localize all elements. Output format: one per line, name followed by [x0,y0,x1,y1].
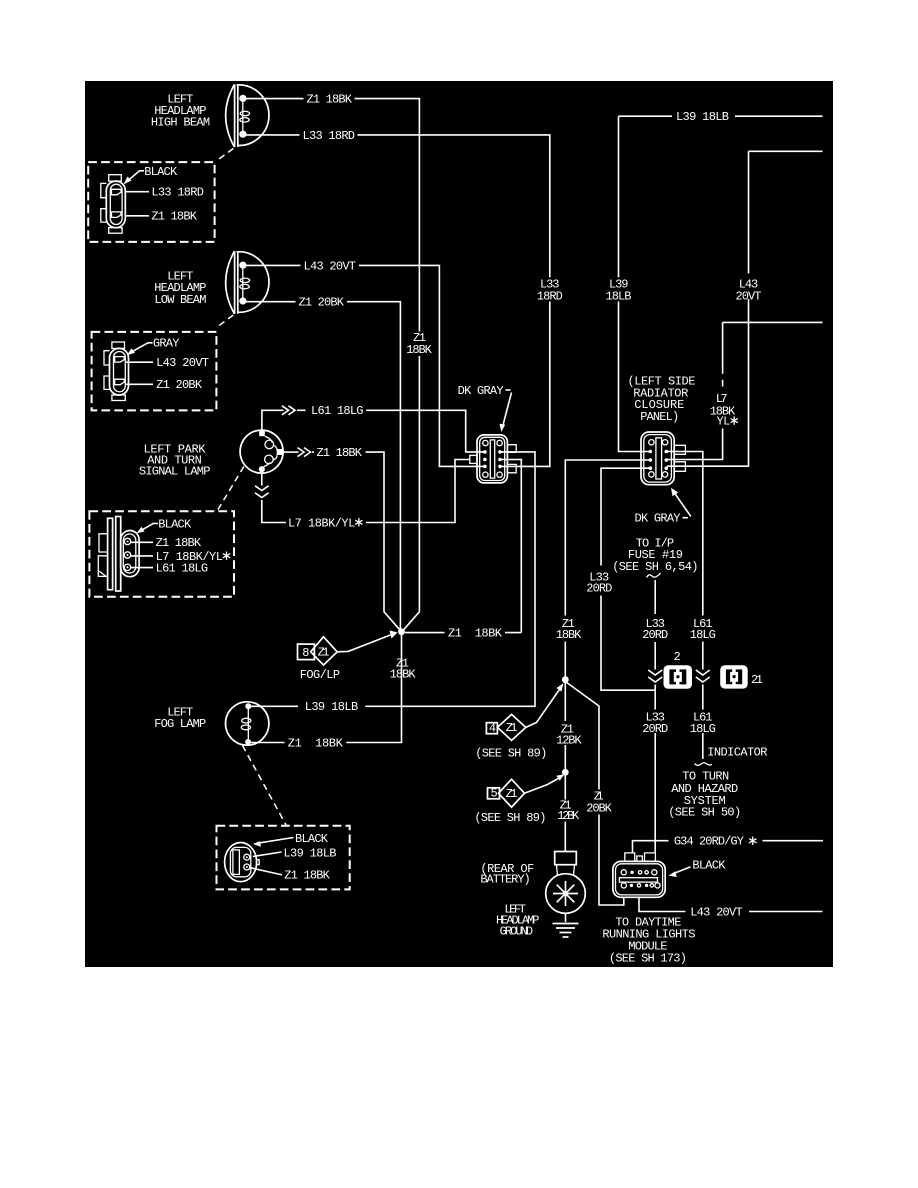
label LEFT HEADLAMP GROUND [496,902,540,938]
dashed leader fog lamp to box [243,746,287,826]
wire L39 18LB vertical run to U2 row2 left [618,116,620,277]
svg-text:21: 21 [751,673,763,687]
splice symbol 4 Z1 (SEE SH 89) with arrow to node B [475,683,563,760]
svg-text:4: 4 [489,722,496,736]
svg-text:L39 18LB: L39 18LB [676,110,729,124]
ground symbol [553,913,579,937]
wire L61 18LG from park/turn top to connector U1 row2 left [262,404,484,452]
svg-text:SIGNAL LAMP: SIGNAL LAMP [139,464,211,478]
svg-text:BATTERY): BATTERY) [480,873,530,887]
black diagram panel [85,81,833,967]
svg-text:18RD: 18RD [537,289,563,303]
svg-text:L43 20VT: L43 20VT [156,356,209,370]
connector box C2 (low beam, GRAY) dashed box [92,332,217,411]
svg-text:12BK: 12BK [557,809,580,823]
svg-text:FOG/LP: FOG/LP [300,668,340,682]
label TO I/P FUSE #19 (SEE SH 6,54) [612,536,698,577]
wire L43 20VT from DRL module bottom [639,897,823,919]
svg-text:8: 8 [302,646,309,660]
wire Z1 18BK vertical lower part into node A [404,356,420,630]
lamp: left headlamp high beam [226,84,269,147]
connector box C3 (park/turn, BLACK) dashed box [89,511,234,596]
svg-text:Z1 18BK: Z1 18BK [288,736,344,750]
connector C2 face symbol [104,342,129,401]
svg-text:(SEE SH 173): (SEE SH 173) [609,951,687,965]
label BLACK (C4) with arrow [253,832,329,847]
svg-text:YL: YL [717,415,731,429]
wire L33 18RD from high beam [246,129,550,277]
splice symbol 8 Z1 FOG/LP [298,637,338,665]
label L7 18BK/YL* (C3 pin) [131,550,230,564]
svg-text:Z1: Z1 [318,646,330,660]
lamp: left headlamp low beam [226,251,269,314]
svg-text:BLACK: BLACK [144,165,178,179]
svg-text:Z1 18BK: Z1 18BK [156,536,202,550]
label L61 18LG (C3 pin) [131,562,208,576]
wire label Z1 18BK (node A lower run) [390,657,417,682]
wire Z1 18BK from park/turn right terminal [283,446,400,630]
node A junction dot [398,628,405,635]
svg-text:Z1: Z1 [506,787,518,801]
label DK GRAY (U1) with arrow [458,384,512,432]
svg-text:BLACK: BLACK [158,517,192,531]
wire Z1 18BK horizontal from node A to U1 branch [405,627,521,641]
wire L61 18LG from U2 row2 right down to turn/hazard [667,452,716,766]
svg-text:(SEE SH 50): (SEE SH 50) [668,806,741,820]
label TO TURN AND HAZARD SYSTEM (SEE SH 50) [668,770,741,820]
label Z1 18BK (C3 pin) [131,536,202,550]
label TO DAYTIME RUNNING LIGHTS MODULE (SEE SH 173) [602,915,695,965]
svg-text:Z1 18BK: Z1 18BK [448,627,503,641]
svg-text:5: 5 [491,787,498,801]
svg-text:BLACK: BLACK [295,832,329,846]
wire Z1 18BK from fog lamp to node A vertical [251,634,402,750]
svg-text:L7 18BK/YL: L7 18BK/YL [288,516,355,530]
svg-text:18BK: 18BK [390,668,417,682]
wire L33 20RD branch from U2 row4 left [586,468,655,690]
wire label L33 18RD (vertical) [537,277,563,303]
label Z1 20BK (C2 pin) [126,378,203,392]
svg-text:L33 18RD: L33 18RD [151,186,204,200]
wire Z1 20BK branch from node B to DRL module [565,682,624,906]
splice symbol 2 [664,650,693,689]
label BLACK (DRL module) with arrow [668,859,726,877]
node B junction dot [562,676,569,683]
svg-text:Z1 18BK: Z1 18BK [151,210,197,224]
svg-text:G34 20RD/GY: G34 20RD/GY [674,835,744,849]
svg-text:L39 18LB: L39 18LB [305,700,359,714]
svg-text:INDICATOR: INDICATOR [707,745,767,759]
svg-text:18BK: 18BK [406,343,432,357]
svg-text:12BK: 12BK [556,734,582,748]
wire Z1 12BK node B to node C [556,683,582,769]
label: LEFT PARK AND TURN SIGNAL LAMP [139,442,211,478]
label Z1 18BK (C4 pin) [251,868,331,883]
svg-text:Z1 18BK: Z1 18BK [284,869,330,883]
wire G34 20RD/GY* from DRL module [633,835,824,853]
wire Z1 12BK node C to ground bulb [557,776,580,852]
wire L39 18LB from fog lamp to connector U1 row2 right [251,452,535,714]
label L33 18RD (C1 pin) [125,186,204,200]
svg-text:BLACK: BLACK [692,859,726,873]
wire label Z1 18BK (vertical run) [406,331,432,357]
svg-text:LOW BEAM: LOW BEAM [154,293,206,307]
svg-text:L39 18LB: L39 18LB [284,847,337,861]
connector C1 face symbol [101,175,126,234]
wire Z1 18BK from U2 row3 left down to node B [556,460,650,677]
svg-text:(SEE SH 6,54): (SEE SH 6,54) [612,560,698,574]
svg-text:20BK: 20BK [586,802,612,816]
svg-text:Z1: Z1 [506,721,518,735]
label DK GRAY (U2) with arrow [635,488,691,526]
svg-text:Z1 20BK: Z1 20BK [156,378,203,392]
label Z1 18BK (C1 pin) [125,210,197,224]
label BLACK (C1) with arrow [124,165,178,185]
arrow from FOG/LP splice to node A [337,631,397,652]
svg-text:L43 20VT: L43 20VT [690,905,743,919]
svg-text:FOG LAMP: FOG LAMP [154,717,206,731]
svg-text:GRAY: GRAY [153,337,180,351]
svg-text:L61 18LG: L61 18LG [156,562,209,576]
connector box C1 (high beam, BLACK) dashed box [88,162,214,242]
label (LEFT SIDE RADIATOR CLOSURE PANEL) [628,375,696,424]
wire Z1 18BK U1 row3 right down to node A branch [501,460,522,633]
svg-text:(SEE SH 89): (SEE SH 89) [474,811,546,825]
label (REAR OF BATTERY) [480,862,534,887]
label L39 18LB (C4 pin) [253,847,337,861]
wire L39 18LB top right horizontal [619,110,823,124]
svg-text:GROUND: GROUND [500,924,533,938]
svg-text:18LG: 18LG [690,628,716,642]
connector C4 face symbol [225,843,260,882]
svg-text:18LB: 18LB [606,289,632,303]
splice symbol 5 Z1 (SEE SH 89) with arrow to node C [474,774,564,825]
svg-text:HIGH BEAM: HIGH BEAM [151,116,210,130]
wire L43 20VT from low beam to connector U1 row4 left [246,259,484,466]
wire Z1 18BK from high beam to vertical run [246,93,419,332]
svg-text:Z1 18BK: Z1 18BK [307,93,353,107]
wire L7 18BK/YL* from park/turn bottom terminal [255,460,470,531]
inline connector U2 (left side radiator closure panel) [641,432,685,485]
label: LEFT HEADLAMP HIGH BEAM [151,93,210,130]
wire Z1 20BK from low beam down to node A [246,296,400,630]
wire L7 18BK/YL* right horizontal and vertical to U2 row3 right [667,322,823,459]
svg-text:18BK: 18BK [556,628,582,642]
svg-text:DK GRAY: DK GRAY [635,512,681,526]
svg-text:(SEE SH 89): (SEE SH 89) [475,746,547,760]
svg-text:PANEL): PANEL) [640,410,679,424]
label: LEFT HEADLAMP LOW BEAM [154,269,206,307]
svg-text:Z1 20BK: Z1 20BK [299,296,345,310]
svg-text:2: 2 [674,650,681,664]
lamp: left fog lamp [226,702,269,745]
label L43 20VT (C2 pin) [126,356,209,370]
ground bulb symbol (left headlamp ground) [546,852,586,914]
svg-text:20RD: 20RD [642,628,668,642]
lamp: left park and turn signal lamp [240,430,283,473]
svg-text:L61 18LG: L61 18LG [311,404,364,418]
node C junction dot [562,769,569,776]
svg-text:L33 18RD: L33 18RD [303,129,356,143]
inline connector U1 (DK GRAY) [470,435,516,483]
svg-text:Z1 18BK: Z1 18BK [317,446,363,460]
svg-text:DK GRAY: DK GRAY [458,384,504,398]
DRL module connector (BLACK) [613,853,665,897]
label BLACK (C3) with arrow [137,517,192,533]
dashed leader park/turn to box [218,466,244,510]
label GRAY (C2) with arrow [127,337,180,356]
svg-text:L43 20VT: L43 20VT [304,259,357,273]
wire L33 18RD lower segment into connector U1 row4 right [501,302,550,467]
wire L33 20RD from I/P fuse down to DRL module [642,580,668,853]
svg-text:20RD: 20RD [586,582,612,596]
label: LEFT FOG LAMP [154,705,206,731]
dashed leader low beam to GRAY box [217,315,234,328]
wire L43 20VT top right horizontal and vertical to U2 row4 right [667,151,823,466]
connector box C4 (fog lamp, BLACK) dashed box [217,826,350,890]
splice symbol 21 [720,665,763,688]
dashed leader high beam to connector box [217,149,233,161]
connector C3 face symbol [98,517,139,592]
